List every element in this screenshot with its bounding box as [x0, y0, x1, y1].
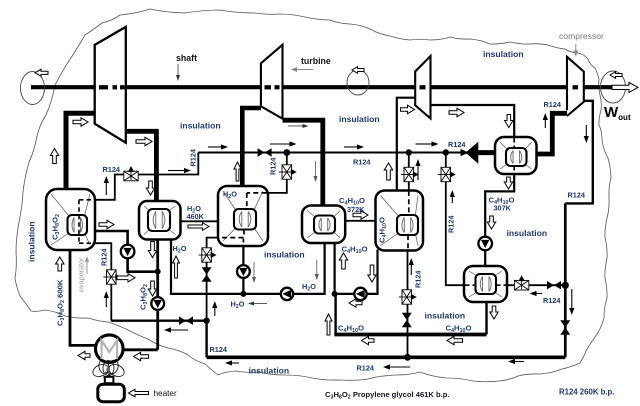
burner flame cluster	[91, 359, 126, 379]
R124 coil dashed bottom HX2	[219, 237, 244, 239]
pipe R124 header hook to HX1 coil	[92, 153, 198, 200]
pipe glycol motor to pump P2 riser	[123, 348, 158, 351]
flow arrow open R124 after D2	[117, 274, 135, 282]
R124 coil dashed in HX1	[78, 200, 80, 243]
flow arrow open up into HX1	[50, 149, 58, 164]
flow arrow H2O down beside P3 (thin)	[252, 262, 256, 283]
pipe steam HX2 to turbine T2 (thick)	[242, 108, 261, 187]
pipe H2O HX2a to HX2	[180, 220, 219, 222]
flow arrow H2O loop left (thin)	[248, 302, 267, 306]
expansion device D6 (R124 HX6 branch)	[438, 167, 455, 181]
node glycol merge	[155, 269, 161, 275]
svg-text:shaft: shaft	[176, 53, 197, 63]
flow arrow bottom header mid	[383, 364, 410, 369]
node R124 bottom header / HX4 branch	[404, 354, 411, 361]
flow arrow R124 up to HX1	[104, 176, 109, 195]
label arrow compressor (grey)	[573, 44, 578, 57]
pipe glycol HX1 bottom to motor	[70, 249, 96, 345]
flow arrow open left into motor	[134, 352, 149, 360]
pipe compressor outlet jog	[565, 101, 593, 204]
flow arrow evaporator up (grey)	[85, 256, 89, 274]
compressor	[567, 57, 585, 116]
pump P1 glycol	[121, 245, 135, 259]
shaft gap dashes inside turbines	[97, 85, 584, 90]
svg-text:insulation: insulation	[339, 114, 380, 124]
butanol dashed in HX5 upper	[513, 138, 515, 148]
turbine T1	[95, 27, 126, 143]
flow arrow R124 up to compressor	[543, 113, 548, 128]
turbine T2	[261, 45, 283, 119]
pipe R124 HX4 coil exit to bottom header	[407, 250, 409, 357]
valve V1 on R124 header	[258, 148, 272, 156]
motor M	[96, 335, 124, 363]
svg-text:R124: R124	[103, 165, 121, 174]
pipe R124 evaporator return line	[111, 320, 206, 322]
pipe butanol vapor HX4 to turbine T3	[397, 98, 415, 191]
flow arrow R124 header left	[208, 144, 228, 149]
flow arrow open left below P5	[349, 299, 362, 307]
pipe R124 valve to HX5 (thick)	[477, 150, 497, 155]
rotation arrow middle	[352, 67, 364, 74]
valve V2 on R124 evaporator return	[179, 317, 193, 325]
flow arrow open up steam to T2	[234, 162, 241, 181]
svg-text:R124: R124	[100, 248, 109, 266]
pipe T1 exhaust to boiler HX2a (thick)	[126, 131, 157, 202]
svg-text:insulation: insulation	[507, 228, 548, 238]
pipe T2 exhaust to HX3 (thick)	[283, 120, 323, 207]
pipe butanol riser from bottom loop	[334, 294, 336, 335]
svg-text:460K: 460K	[187, 212, 205, 221]
flow arrow R124 header mid	[344, 144, 364, 149]
svg-text:307K: 307K	[494, 204, 512, 213]
flow arrow open glycol out of HX1	[99, 220, 114, 228]
flow arrow open up H2O to HX2a	[173, 256, 180, 278]
label arrow shaft (thin)	[176, 64, 180, 81]
burner nozzle dark wedge	[105, 373, 114, 382]
pump P4 H2O loop	[281, 288, 293, 300]
expansion device D1 (R124 into HX1 coil)	[124, 167, 138, 181]
expansion device D8 (right of HX6 coil)	[514, 276, 528, 290]
pump P2 glycol	[151, 297, 164, 310]
pipe glycol vapor HX1 to turbine T1 (thick)	[66, 113, 95, 190]
pump P6 butanol condensate	[478, 237, 492, 251]
node R124 header / HX6 branch	[443, 149, 449, 155]
svg-text:R124: R124	[544, 100, 562, 109]
flow arrow open down glycol lower	[148, 281, 156, 296]
pipe HX5 to compressor (thick)	[536, 113, 568, 154]
svg-text:R124: R124	[269, 157, 278, 175]
flow arrow open H2O HX2a to HX2	[188, 223, 209, 231]
svg-text:evaporator: evaporator	[77, 257, 86, 292]
R124 coil dashed exit HX2	[243, 230, 245, 238]
flow arrow open up butanol to T3	[384, 163, 392, 180]
valve V5 below HX2 expansion device	[202, 267, 212, 281]
R124 coil dashed down HX2	[246, 193, 248, 210]
svg-text:insulation: insulation	[249, 366, 290, 376]
svg-text:compressor: compressor	[559, 31, 604, 41]
svg-text:insulation: insulation	[264, 250, 305, 260]
svg-text:372K: 372K	[347, 205, 365, 214]
pipe R124 HX2 coil exit to expansion line	[207, 238, 219, 321]
flow arrow open left butanol loop 1	[362, 336, 375, 344]
flow arrow open glycol into T1	[73, 118, 88, 126]
svg-text:turbine: turbine	[301, 56, 331, 66]
flow arrow R124 header right	[416, 141, 439, 146]
pipe butanol HX6 bottom drain	[485, 301, 487, 335]
pipe H2O loop HX2a return	[171, 239, 325, 294]
shaft rotation ellipse middle	[347, 70, 369, 95]
flow arrow R124 up HX4 branch	[415, 159, 420, 180]
R124 coil dashed in HX6 right	[496, 284, 507, 286]
flow arrow R124 return left	[164, 327, 188, 332]
heat exchanger HX1 glycol boiler (C3H8O2)	[46, 189, 95, 250]
svg-text:R124: R124	[414, 270, 423, 288]
svg-text:R124: R124	[447, 215, 456, 233]
svg-text:heater: heater	[154, 389, 177, 398]
flow arrow open down HX6 drain	[490, 306, 498, 319]
expansion device D2 (R124 HX1 return)	[103, 270, 120, 284]
svg-text:R124: R124	[210, 345, 228, 354]
R124 coil dashed in HX6 left	[465, 284, 476, 286]
flow arrow open down T1 exhaust pipe	[146, 181, 154, 195]
flow arrow R124 into HX6 coil	[530, 291, 543, 296]
svg-text:insulation: insulation	[180, 121, 221, 131]
svg-text:R124: R124	[448, 140, 466, 149]
flow arrow R124 up to junction	[212, 301, 217, 316]
flow arrow bottom header right	[508, 359, 524, 364]
expansion device D3 (R124 after HX2 coil)	[199, 248, 216, 262]
flow arrow H2O down from HX3 (thin)	[315, 260, 319, 280]
pipe R124 branch to HX2 coil	[267, 153, 287, 193]
flow arrow R124 header at HX2 branch	[270, 141, 297, 146]
flow arrow open T3 exhaust	[449, 108, 464, 116]
heat exchanger HX3 butanol preheater	[302, 206, 345, 244]
flow arrow compressor discharge down	[584, 125, 589, 143]
heater box	[98, 384, 125, 402]
node R124 expansion junction	[203, 318, 209, 324]
pipe R124 branch through HX4 coil upper	[408, 153, 410, 192]
flow arrow open left into heater	[129, 389, 149, 397]
rotation arrow right	[610, 72, 622, 79]
node R124 header / HX2 branch	[283, 149, 290, 156]
heat exchanger HX2a H2O boiler 460K	[139, 201, 181, 240]
shaft rotation ellipse left	[21, 72, 45, 105]
R124 coil dashed entry HX2	[247, 192, 267, 194]
flow arrow open butanol into T3	[401, 105, 415, 113]
svg-text:R124: R124	[543, 296, 561, 305]
burner nozzle fitting	[105, 377, 114, 383]
pipe butanol bottom loop HX6 to riser	[334, 333, 486, 337]
flow arrow T2 exhaust right (thin)	[288, 124, 309, 128]
flow arrow bottom header left end	[225, 360, 239, 365]
H2O dashed outlet HX2	[242, 239, 244, 247]
pipe H2O HX2 bottom drain	[242, 245, 244, 294]
expansion device D7 (below HX4 coil)	[399, 290, 416, 304]
flow arrow open down butanol return	[368, 265, 376, 282]
flow arrow R124 up below HX4	[409, 258, 414, 275]
pump P3 H2O drain	[237, 265, 250, 278]
svg-text:insulation: insulation	[27, 221, 37, 262]
pipe butanol HX3 to HX4	[345, 220, 377, 222]
svg-text:R124: R124	[353, 158, 371, 167]
flow arrow open left butanol loop 2	[447, 336, 463, 344]
pipe R124 branch to HX6 coil	[446, 153, 465, 286]
svg-text:R124: R124	[189, 148, 198, 166]
flow arrow open up butanol to HX3	[339, 253, 347, 269]
node R124 header / HX4 branch	[406, 149, 412, 155]
pipe R124 main header	[198, 152, 463, 154]
node R124 discharge / HX6 branch	[562, 282, 569, 289]
pipe butanol HX4 return via pump P5	[335, 250, 378, 294]
flow arrow open down to HX6	[487, 216, 495, 229]
heat exchanger HX6 subcooler	[464, 266, 507, 302]
shaft dashes over turbines	[99, 85, 578, 89]
pipe R124 HX6 coil exit to junction	[507, 284, 563, 286]
node H2O loop / HX2 drain	[240, 291, 246, 297]
flow arrow open up butanol riser	[325, 314, 332, 335]
valve V7 on compressor discharge drop	[560, 320, 570, 334]
flow arrow steam down beside T2 pipe (thin)	[314, 161, 318, 182]
pipe butanol HX3 bottom feed	[334, 242, 336, 294]
svg-text:R124 260K b.p.: R124 260K b.p.	[559, 388, 614, 397]
label arrow turbine (grey)	[291, 67, 313, 72]
flow arrow open left of motor	[78, 351, 90, 359]
R124 coil dashed in HX4 lower	[407, 235, 409, 250]
flow arrow open up below HX1	[56, 257, 64, 271]
shaft rotation ellipse right	[601, 71, 626, 103]
pipe butanol HX5 drain to pump P6 to HX6	[485, 174, 514, 268]
svg-text:insulation: insulation	[483, 49, 524, 59]
valve V6 below HX4 expansion device	[402, 313, 412, 327]
heat exchanger HX5 butanol condenser 307K	[495, 137, 537, 174]
svg-text:R124: R124	[568, 191, 586, 200]
check valve V4 before HX5 (large)	[461, 142, 479, 164]
pump P5 butanol loop	[354, 288, 366, 300]
flow arrow R124 up HX6 branch	[450, 190, 455, 203]
butanol dashed in HX5 lower	[513, 166, 515, 174]
flow arrow open down glycol upper	[148, 242, 156, 258]
flow arrow R124 up from HX1 coil	[104, 291, 109, 307]
W out arrow on shaft	[612, 82, 638, 92]
turbine T3	[415, 56, 430, 119]
R124 coil dashed bottom HX1	[79, 242, 92, 244]
pipe T3 exhaust to HX5	[431, 105, 515, 138]
valve V3 at HX6 coil junction	[547, 281, 561, 289]
flow arrow R124 down right side	[569, 289, 574, 315]
pipe R124 to bottom header drop	[205, 321, 207, 358]
heat exchanger HX4 butanol boiler	[376, 191, 424, 251]
svg-text:insulation: insulation	[425, 311, 466, 321]
flow arrow open down T3 exhaust drop	[505, 115, 513, 128]
flow arrow open down HX5 drain	[504, 177, 512, 189]
flow arrow R124 into HX1 coil	[168, 168, 191, 173]
R124 coil dashed top HX1	[79, 199, 92, 201]
heat exchanger HX2 H2O boiler	[218, 186, 268, 246]
shaft	[31, 85, 613, 89]
expansion device D5 (R124 into HX4 coil)	[401, 167, 418, 181]
pipe R124 HX1 coil bottom to valve line	[92, 243, 111, 321]
node butanol loop	[332, 291, 338, 297]
svg-text:R124: R124	[357, 364, 375, 373]
pipe glycol riser to HX2a bottom	[156, 240, 159, 350]
pipe R124 bottom header	[207, 355, 566, 359]
flow arrow open butanol HX3 to HX4	[353, 211, 368, 219]
flow arrow open T1 exhaust	[136, 137, 152, 145]
pipe R124 compressor discharge right side	[564, 203, 567, 357]
rotation arrow left end	[35, 69, 48, 76]
pipe glycol HX1 right via pump P1	[95, 231, 158, 272]
expansion device D4 (R124 into HX2 coil)	[279, 165, 296, 179]
R124 coil dashed in HX4 upper	[408, 191, 410, 215]
